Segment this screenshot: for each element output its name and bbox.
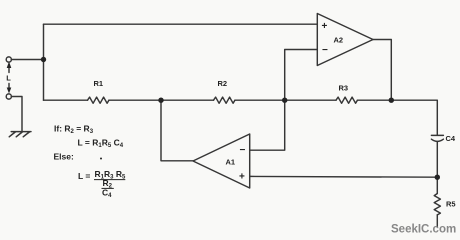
svg-text:−: − bbox=[240, 145, 246, 156]
junction node A (R1-R2, A1 out) bbox=[158, 98, 163, 103]
arrowhead down bbox=[7, 88, 12, 94]
svg-text:R1: R1 bbox=[94, 79, 104, 88]
wire node B up to A2 inverting input bbox=[285, 50, 318, 101]
fraction bar 1 bbox=[94, 179, 125, 181]
wire A2 output to node C bbox=[373, 40, 391, 101]
resistor R3 bbox=[336, 97, 357, 103]
svg-text:L =: L = bbox=[78, 171, 90, 181]
svg-text:R1R3 R5: R1R3 R5 bbox=[95, 169, 126, 181]
svg-text:SeekIC.com: SeekIC.com bbox=[391, 224, 456, 236]
wire node C to C4 top bbox=[391, 100, 437, 135]
wire node D to R5 bbox=[436, 177, 438, 193]
wire C4 to node D bbox=[436, 142, 438, 178]
wire top rail from input node to A2 + input bbox=[44, 23, 318, 25]
resistor R1 bbox=[88, 97, 109, 103]
stray dot after Else bbox=[100, 158, 102, 160]
op-amp A1 bbox=[193, 134, 250, 188]
wire left vertical from top rail to R1 row bbox=[43, 24, 45, 100]
svg-text:Else:: Else: bbox=[54, 152, 74, 162]
junction node at input bbox=[41, 57, 46, 62]
junction node B (R2-R3, A-inputs) bbox=[282, 98, 287, 103]
svg-text:C4: C4 bbox=[446, 134, 456, 143]
svg-text:L: L bbox=[6, 73, 11, 82]
svg-text:A1: A1 bbox=[226, 157, 236, 166]
wire bottom terminal to ground drop bbox=[11, 97, 22, 132]
wire top terminal to node bbox=[11, 59, 43, 61]
svg-text:A2: A2 bbox=[334, 36, 344, 45]
svg-text:−: − bbox=[322, 45, 328, 56]
resistor R2 bbox=[214, 97, 235, 103]
wire A1 non-inverting input to node D bbox=[250, 175, 438, 178]
junction node D (C4-R5-A1+) bbox=[435, 175, 440, 180]
arrowhead up bbox=[7, 62, 12, 69]
arrow up toward top terminal bbox=[8, 67, 10, 73]
ground bbox=[9, 132, 31, 137]
svg-text:If: R2 = R3: If: R2 = R3 bbox=[54, 124, 94, 136]
wire R3 to node C bbox=[357, 99, 391, 101]
arrow down toward bottom terminal bbox=[8, 84, 10, 90]
svg-text:+: + bbox=[322, 21, 328, 32]
resistor R5 bbox=[434, 194, 440, 215]
wire R1 to node A bbox=[109, 99, 161, 101]
wire A1 inverting input to node B bbox=[250, 100, 285, 150]
capacitor C4 top plate bbox=[431, 134, 443, 136]
wire node A to R2 bbox=[161, 99, 214, 101]
svg-text:L = R1R5 C4: L = R1R5 C4 bbox=[78, 138, 124, 150]
wire R5 to bottom bbox=[436, 215, 438, 227]
wire node A down to A1 output bbox=[161, 100, 193, 161]
wire R2 to node B bbox=[235, 99, 285, 101]
wire R1 row left segment bbox=[44, 99, 88, 101]
capacitor C4 bottom plate bbox=[431, 139, 443, 141]
svg-text:R3: R3 bbox=[339, 84, 349, 93]
fraction bar 2 bbox=[102, 187, 114, 189]
svg-text:R5: R5 bbox=[446, 200, 456, 209]
terminal top bbox=[6, 57, 11, 62]
junction node C (R3 right, A2 out) bbox=[389, 98, 394, 103]
op-amp A2 bbox=[317, 14, 373, 66]
wire node B to R3 bbox=[285, 99, 336, 101]
terminal bottom bbox=[6, 94, 11, 99]
svg-text:+: + bbox=[239, 172, 245, 183]
svg-text:R2: R2 bbox=[218, 79, 228, 88]
